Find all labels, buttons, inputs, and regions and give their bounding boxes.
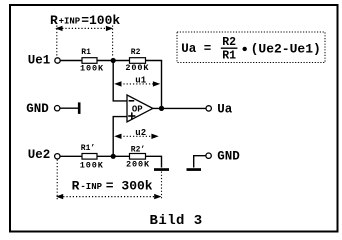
resistor R1 xyxy=(82,58,97,64)
svg-text:(Ue2-Ue1): (Ue2-Ue1) xyxy=(251,42,321,57)
junction node inverting input branch xyxy=(111,58,116,63)
wire R2 to feedback corner xyxy=(146,60,163,62)
svg-text:R2: R2 xyxy=(222,36,236,49)
svg-text:GND: GND xyxy=(26,102,49,116)
measurement arrow R+INP (dimension line with arrowheads) xyxy=(55,26,113,58)
svg-text:200K: 200K xyxy=(126,159,150,169)
svg-text:200K: 200K xyxy=(125,63,149,73)
svg-text:R1: R1 xyxy=(81,48,91,57)
svg-text:100K: 100K xyxy=(80,64,104,74)
svg-text:R2’: R2’ xyxy=(131,145,145,154)
wire GND right to ground xyxy=(194,156,206,168)
svg-text:R: R xyxy=(72,179,80,194)
formula box xyxy=(177,32,325,63)
wire GND left stub xyxy=(60,107,79,109)
svg-text:Ua: Ua xyxy=(217,103,233,117)
terminal Ue2 xyxy=(55,154,60,159)
terminal GND left xyxy=(55,106,60,111)
measurement arrow u2 xyxy=(114,128,159,139)
svg-text:GND: GND xyxy=(217,150,240,164)
junction node output xyxy=(159,106,164,111)
measurement arrow R-INP (dimension line with arrowheads) xyxy=(56,160,162,200)
svg-text:R1’: R1’ xyxy=(81,144,95,153)
op-amp U1 xyxy=(127,95,153,122)
terminal GND right xyxy=(206,153,211,158)
junction node non-inverting branch xyxy=(111,154,116,159)
label R-INP = 300k xyxy=(72,179,153,194)
ground bar right xyxy=(187,168,202,171)
svg-text:-INP: -INP xyxy=(80,182,102,192)
wire R1 to R2 xyxy=(97,60,130,62)
svg-text:=100k: =100k xyxy=(81,13,120,28)
svg-text:u1: u1 xyxy=(135,76,146,86)
resistor R2' xyxy=(130,154,146,160)
svg-text:= 300k: = 300k xyxy=(106,179,153,194)
terminal Ue1 xyxy=(55,58,60,63)
svg-text:100K: 100K xyxy=(80,161,104,171)
svg-text:OP: OP xyxy=(132,105,143,115)
wire inverting input xyxy=(113,61,127,101)
wire non-inverting input xyxy=(113,117,127,157)
resistor R1' xyxy=(82,154,97,160)
terminal Ua xyxy=(206,106,211,111)
svg-text:R1: R1 xyxy=(222,50,236,63)
wire feedback vertical xyxy=(161,61,163,109)
label R+INP=100k xyxy=(50,13,120,28)
svg-text:Bild 3: Bild 3 xyxy=(150,213,203,229)
svg-text:R2: R2 xyxy=(131,48,141,57)
ground bar R2' xyxy=(154,168,169,171)
svg-text:Ua: Ua xyxy=(181,42,197,56)
svg-text:u2: u2 xyxy=(135,128,146,138)
svg-text:+INP: +INP xyxy=(59,16,81,26)
svg-text:Ue2: Ue2 xyxy=(28,148,51,162)
svg-text:=: = xyxy=(204,42,212,56)
svg-text:Ue1: Ue1 xyxy=(28,54,51,68)
wire Ue1 to R1 xyxy=(60,60,82,62)
ground bar left xyxy=(78,102,81,114)
wire Ue2 to R1' xyxy=(60,155,82,157)
wire output to Ua xyxy=(153,107,206,109)
resistor R2 xyxy=(130,58,146,64)
wire R2' to ground xyxy=(146,156,162,167)
measurement arrow u1 xyxy=(114,76,160,87)
wire R1' to R2' xyxy=(97,155,130,157)
